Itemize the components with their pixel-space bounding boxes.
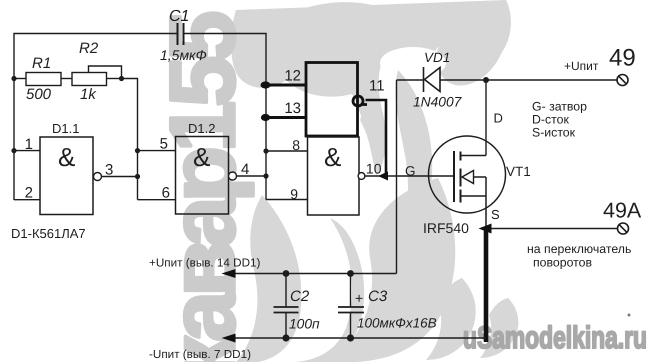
svg-text:на переключатель: на переключатель (527, 242, 631, 256)
svg-text:1k: 1k (80, 86, 97, 103)
node rail pin4 junction (263, 173, 268, 178)
transistor VT1 circle (429, 136, 506, 213)
wire pin9 (266, 199, 308, 201)
svg-text:100мкФх16В: 100мкФх16В (357, 316, 437, 331)
watermark swirl top blob (231, 0, 511, 176)
node rail pin13 junction bold (261, 114, 270, 121)
svg-text:&: & (58, 142, 75, 172)
node C2 bottom junction (282, 334, 289, 341)
node rail pin8 junction (263, 148, 268, 153)
VT1 body arrow (462, 171, 486, 184)
capacitor C1 (178, 23, 184, 45)
capacitor C2 (274, 274, 299, 339)
svg-text:S-исток: S-исток (532, 126, 576, 140)
svg-text:+Uпит (выв. 14 DD1): +Uпит (выв. 14 DD1) (149, 257, 261, 270)
wire pin10 to gate (365, 175, 454, 177)
svg-text:10: 10 (366, 161, 382, 177)
svg-text:C3: C3 (368, 288, 388, 305)
wire top supply rail (440, 79, 617, 81)
node R2 right junction (119, 76, 124, 81)
D1.3 output bubble (358, 173, 365, 180)
terminal 49 (617, 75, 628, 86)
node pin1 junction (11, 148, 16, 153)
wire pin8 (266, 150, 308, 152)
resistor R2 (72, 73, 122, 86)
arrow plus supply (222, 269, 236, 278)
wire top rail right (184, 34, 266, 200)
node mid rail pin5 junction (135, 148, 140, 153)
arrow minus supply (222, 334, 236, 343)
svg-text:D-сток: D-сток (532, 113, 569, 127)
svg-text:G: G (405, 164, 416, 179)
VT1 channel dashes (460, 152, 462, 203)
wire D1.2 pin5 (138, 150, 176, 152)
D1.2 output bubble (229, 172, 237, 180)
wire drain (485, 80, 487, 156)
svg-text:uSamodelkina.ru: uSamodelkina.ru (463, 320, 647, 355)
svg-text:1,5мкФ: 1,5мкФ (160, 47, 207, 63)
wire minus supply rail (233, 337, 486, 339)
svg-text:S: S (491, 207, 500, 222)
node C3 bottom junction (347, 334, 354, 341)
wire D1.1 output pin3 (102, 176, 138, 178)
node drain junction (483, 77, 489, 83)
svg-text:G- затвор: G- затвор (532, 100, 587, 114)
svg-text:6: 6 (162, 185, 170, 202)
watermark bottom flame big (296, 178, 455, 362)
svg-text:3: 3 (105, 162, 113, 179)
gate D1.3 box (308, 137, 360, 215)
node R1 left junction (11, 76, 16, 81)
svg-text:IRF540: IRF540 (423, 220, 469, 236)
watermark tendril right of gates (360, 70, 432, 266)
wire pin11 bold (366, 100, 387, 176)
D1.1 output bubble (94, 173, 102, 181)
gate D1.2 (176, 137, 229, 215)
svg-text:D: D (494, 111, 503, 126)
diode VD1 vertical wire (396, 80, 398, 274)
VT1 gate bar (453, 151, 455, 202)
svg-text:VT1: VT1 (506, 164, 531, 179)
svg-text:&: & (324, 142, 341, 172)
VT1 source connection (461, 177, 487, 228)
svg-text:R2: R2 (79, 40, 99, 57)
diode VD1 (424, 67, 441, 92)
capacitor C3 (338, 274, 364, 339)
node C3 top junction (347, 270, 354, 277)
svg-text:&: & (193, 142, 210, 172)
wire R2 to mid rail (122, 79, 138, 200)
svg-text:C2: C2 (290, 288, 310, 305)
node source junction blob (479, 224, 492, 234)
svg-text:+: + (355, 290, 363, 306)
svg-text:12: 12 (284, 68, 301, 85)
svg-text:+Uпит: +Uпит (564, 59, 599, 73)
resistor R1 (14, 73, 72, 86)
watermark bottom-left curls (426, 278, 518, 360)
VT1 drain connection (461, 155, 487, 157)
wire to 49A (491, 228, 618, 230)
svg-text:9: 9 (290, 186, 298, 202)
svg-text:-Uпит (выв. 7 DD1): -Uпит (выв. 7 DD1) (149, 348, 251, 361)
svg-text:1N4007: 1N4007 (413, 95, 463, 110)
svg-text:8: 8 (292, 137, 300, 153)
svg-text:500: 500 (26, 86, 52, 103)
svg-text:100п: 100п (289, 317, 320, 332)
wire D1.2 pin6 (138, 199, 176, 201)
gate D1.4 box bold (306, 63, 358, 137)
svg-text:4: 4 (241, 161, 249, 178)
wire source thick (484, 230, 489, 342)
wire top rail left (14, 34, 177, 201)
svg-text:49: 49 (609, 45, 636, 72)
watermark uSamodelkina.ru (463, 314, 647, 356)
node mid rail pin3 junction (135, 174, 140, 179)
wire pin13 bold (266, 116, 307, 119)
svg-text:R1: R1 (32, 55, 51, 72)
watermark vertical text kavar155 (152, 13, 254, 362)
wire pin12 bold (266, 84, 307, 87)
svg-text:2: 2 (25, 185, 33, 202)
node pin11-pin10 junction blob (378, 172, 388, 181)
svg-text:VD1: VD1 (424, 50, 450, 65)
svg-text:13: 13 (284, 100, 301, 117)
R2 wiper wire (89, 66, 122, 79)
svg-text:11: 11 (369, 78, 385, 95)
D1.4 output bubble bold (353, 96, 367, 106)
wire D1.2 output pin4 (237, 175, 267, 177)
svg-text:D1.1: D1.1 (52, 121, 79, 136)
terminal 49A (618, 223, 629, 234)
wire plus supply rail DD1 (233, 273, 397, 275)
svg-text:D1.2: D1.2 (188, 121, 215, 136)
node rail pin12 junction bold (261, 81, 271, 88)
gate D1.1 (40, 137, 93, 215)
svg-text:49А: 49А (603, 199, 642, 223)
wire VD1 anode lead (397, 79, 424, 81)
svg-text:5: 5 (160, 136, 168, 153)
watermark bottom flame left (236, 195, 301, 362)
svg-text:поворотов: поворотов (533, 256, 592, 270)
svg-text:C1: C1 (169, 8, 189, 25)
wire D1.1 pin1 (14, 150, 40, 152)
wire D1.1 pin2 (14, 199, 40, 201)
svg-text:D1-К561ЛА7: D1-К561ЛА7 (11, 226, 86, 241)
svg-text:1: 1 (25, 136, 33, 153)
node C2 top junction (283, 270, 290, 277)
